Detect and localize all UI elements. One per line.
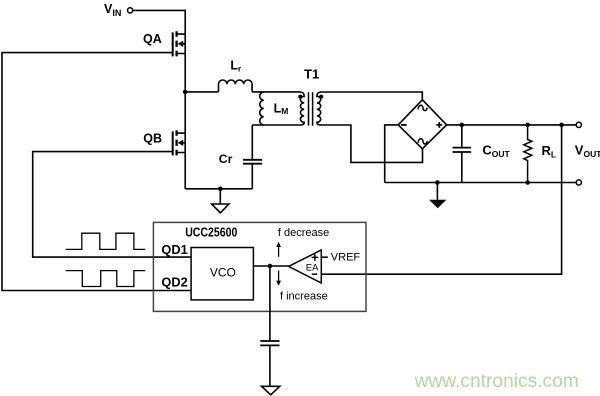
node COUT top junction xyxy=(460,123,465,128)
wire COUT top lead xyxy=(461,125,463,148)
wire cap to ground xyxy=(269,345,271,386)
transistor QB xyxy=(173,130,186,155)
svg-text:LM: LM xyxy=(274,101,289,116)
wire VREF lead xyxy=(321,256,328,258)
transformer T1 core xyxy=(309,92,313,125)
transformer T1 secondary winding xyxy=(317,92,321,125)
svg-text:QD2: QD2 xyxy=(161,275,187,290)
svg-text:Lr: Lr xyxy=(230,59,241,74)
transistor QA xyxy=(173,31,186,56)
svg-text:COUT: COUT xyxy=(482,142,510,158)
svg-text:VCO: VCO xyxy=(210,266,236,280)
bridge rectifier diamond xyxy=(398,100,446,149)
svg-text:www.cntronics.com: www.cntronics.com xyxy=(414,371,579,392)
wire VCO output to EA xyxy=(253,265,288,267)
ground secondary (filled) xyxy=(429,200,446,209)
wire LM bottom rail xyxy=(252,124,300,126)
bridge AC symbol bottom xyxy=(418,139,427,144)
waveform QD1 square wave xyxy=(66,233,146,249)
wire junction down to soft-start cap xyxy=(269,266,271,341)
svg-text:f increase: f increase xyxy=(280,290,328,302)
wire secondary bottom to bridge xyxy=(321,125,423,162)
inductor Lr xyxy=(219,80,253,92)
node RL top junction xyxy=(525,123,530,128)
arrow f decrease (up) xyxy=(276,242,281,257)
IC UCC25600 box xyxy=(153,222,366,311)
svg-text:EA: EA xyxy=(306,263,319,274)
wire node A down to QB drain xyxy=(184,92,186,133)
node VOUT- terminal xyxy=(576,180,581,185)
bridge AC symbol top xyxy=(418,105,427,110)
capacitor soft-start xyxy=(260,341,279,345)
block VCO box xyxy=(191,248,253,300)
inductor LM xyxy=(260,92,264,125)
svg-text:Cr: Cr xyxy=(219,152,233,166)
node VIN terminal xyxy=(128,8,133,13)
node ground junction xyxy=(435,180,440,185)
wire VIN to QA drain xyxy=(133,10,185,34)
wire Cr to bottom rail xyxy=(251,164,253,189)
wire Lr to transformer primary xyxy=(252,91,300,93)
svg-text:QD1: QD1 xyxy=(161,242,187,257)
transformer T1 primary winding xyxy=(300,92,304,125)
svg-text:VREF: VREF xyxy=(331,251,361,263)
svg-text:VOUT: VOUT xyxy=(575,142,600,158)
wire output top rail xyxy=(447,124,577,126)
bridge plus sign xyxy=(436,122,442,128)
wire bridge minus to bottom rail xyxy=(385,125,399,183)
svg-text:QA: QA xyxy=(143,32,162,46)
wire QA gate feedback from QD2 xyxy=(2,53,191,291)
node primary ground junction xyxy=(218,187,223,192)
svg-text:RL: RL xyxy=(542,143,557,159)
capacitor COUT xyxy=(453,148,472,152)
node RL bottom junction xyxy=(525,180,530,185)
transformer secondary dot xyxy=(319,95,323,99)
svg-text:VIN: VIN xyxy=(104,2,121,18)
node feedback top junction xyxy=(559,123,564,128)
wire LM bottom to Cr xyxy=(251,125,253,159)
wire node A to Lr xyxy=(185,91,218,93)
ground soft-start (open arrow) xyxy=(262,386,280,395)
wire feedback from output to EA xyxy=(321,125,561,274)
waveform QD2 square wave xyxy=(66,271,146,287)
EA minus sign xyxy=(312,273,317,275)
svg-text:T1: T1 xyxy=(304,67,319,82)
svg-text:UCC25600: UCC25600 xyxy=(185,224,237,239)
wire QB gate feedback from QD1 xyxy=(33,152,191,258)
transformer primary dot xyxy=(298,95,302,99)
EA plus sign xyxy=(312,254,319,261)
node A junction dot xyxy=(183,90,188,95)
wire COUT bottom lead xyxy=(461,152,463,183)
wire QB source down to bottom rail xyxy=(184,153,186,189)
node VOUT+ terminal xyxy=(576,122,581,127)
ground primary (open arrow) xyxy=(212,204,229,213)
svg-text:f decrease: f decrease xyxy=(278,227,329,239)
capacitor Cr xyxy=(243,160,262,164)
wire ground stub xyxy=(219,189,221,204)
resistor RL xyxy=(524,125,532,183)
svg-text:QB: QB xyxy=(143,132,162,146)
op-amp EA error amplifier xyxy=(289,250,322,283)
wire primary bottom rail xyxy=(185,188,252,190)
wire output bottom rail xyxy=(385,182,577,184)
bridge minus sign xyxy=(401,124,407,126)
wire ground stub secondary xyxy=(436,183,438,200)
wire secondary top to bridge xyxy=(321,92,423,100)
arrow f increase (down) xyxy=(276,271,281,286)
wire QA source down to node A xyxy=(184,54,186,92)
node VCO-EA junction dot xyxy=(268,264,273,269)
